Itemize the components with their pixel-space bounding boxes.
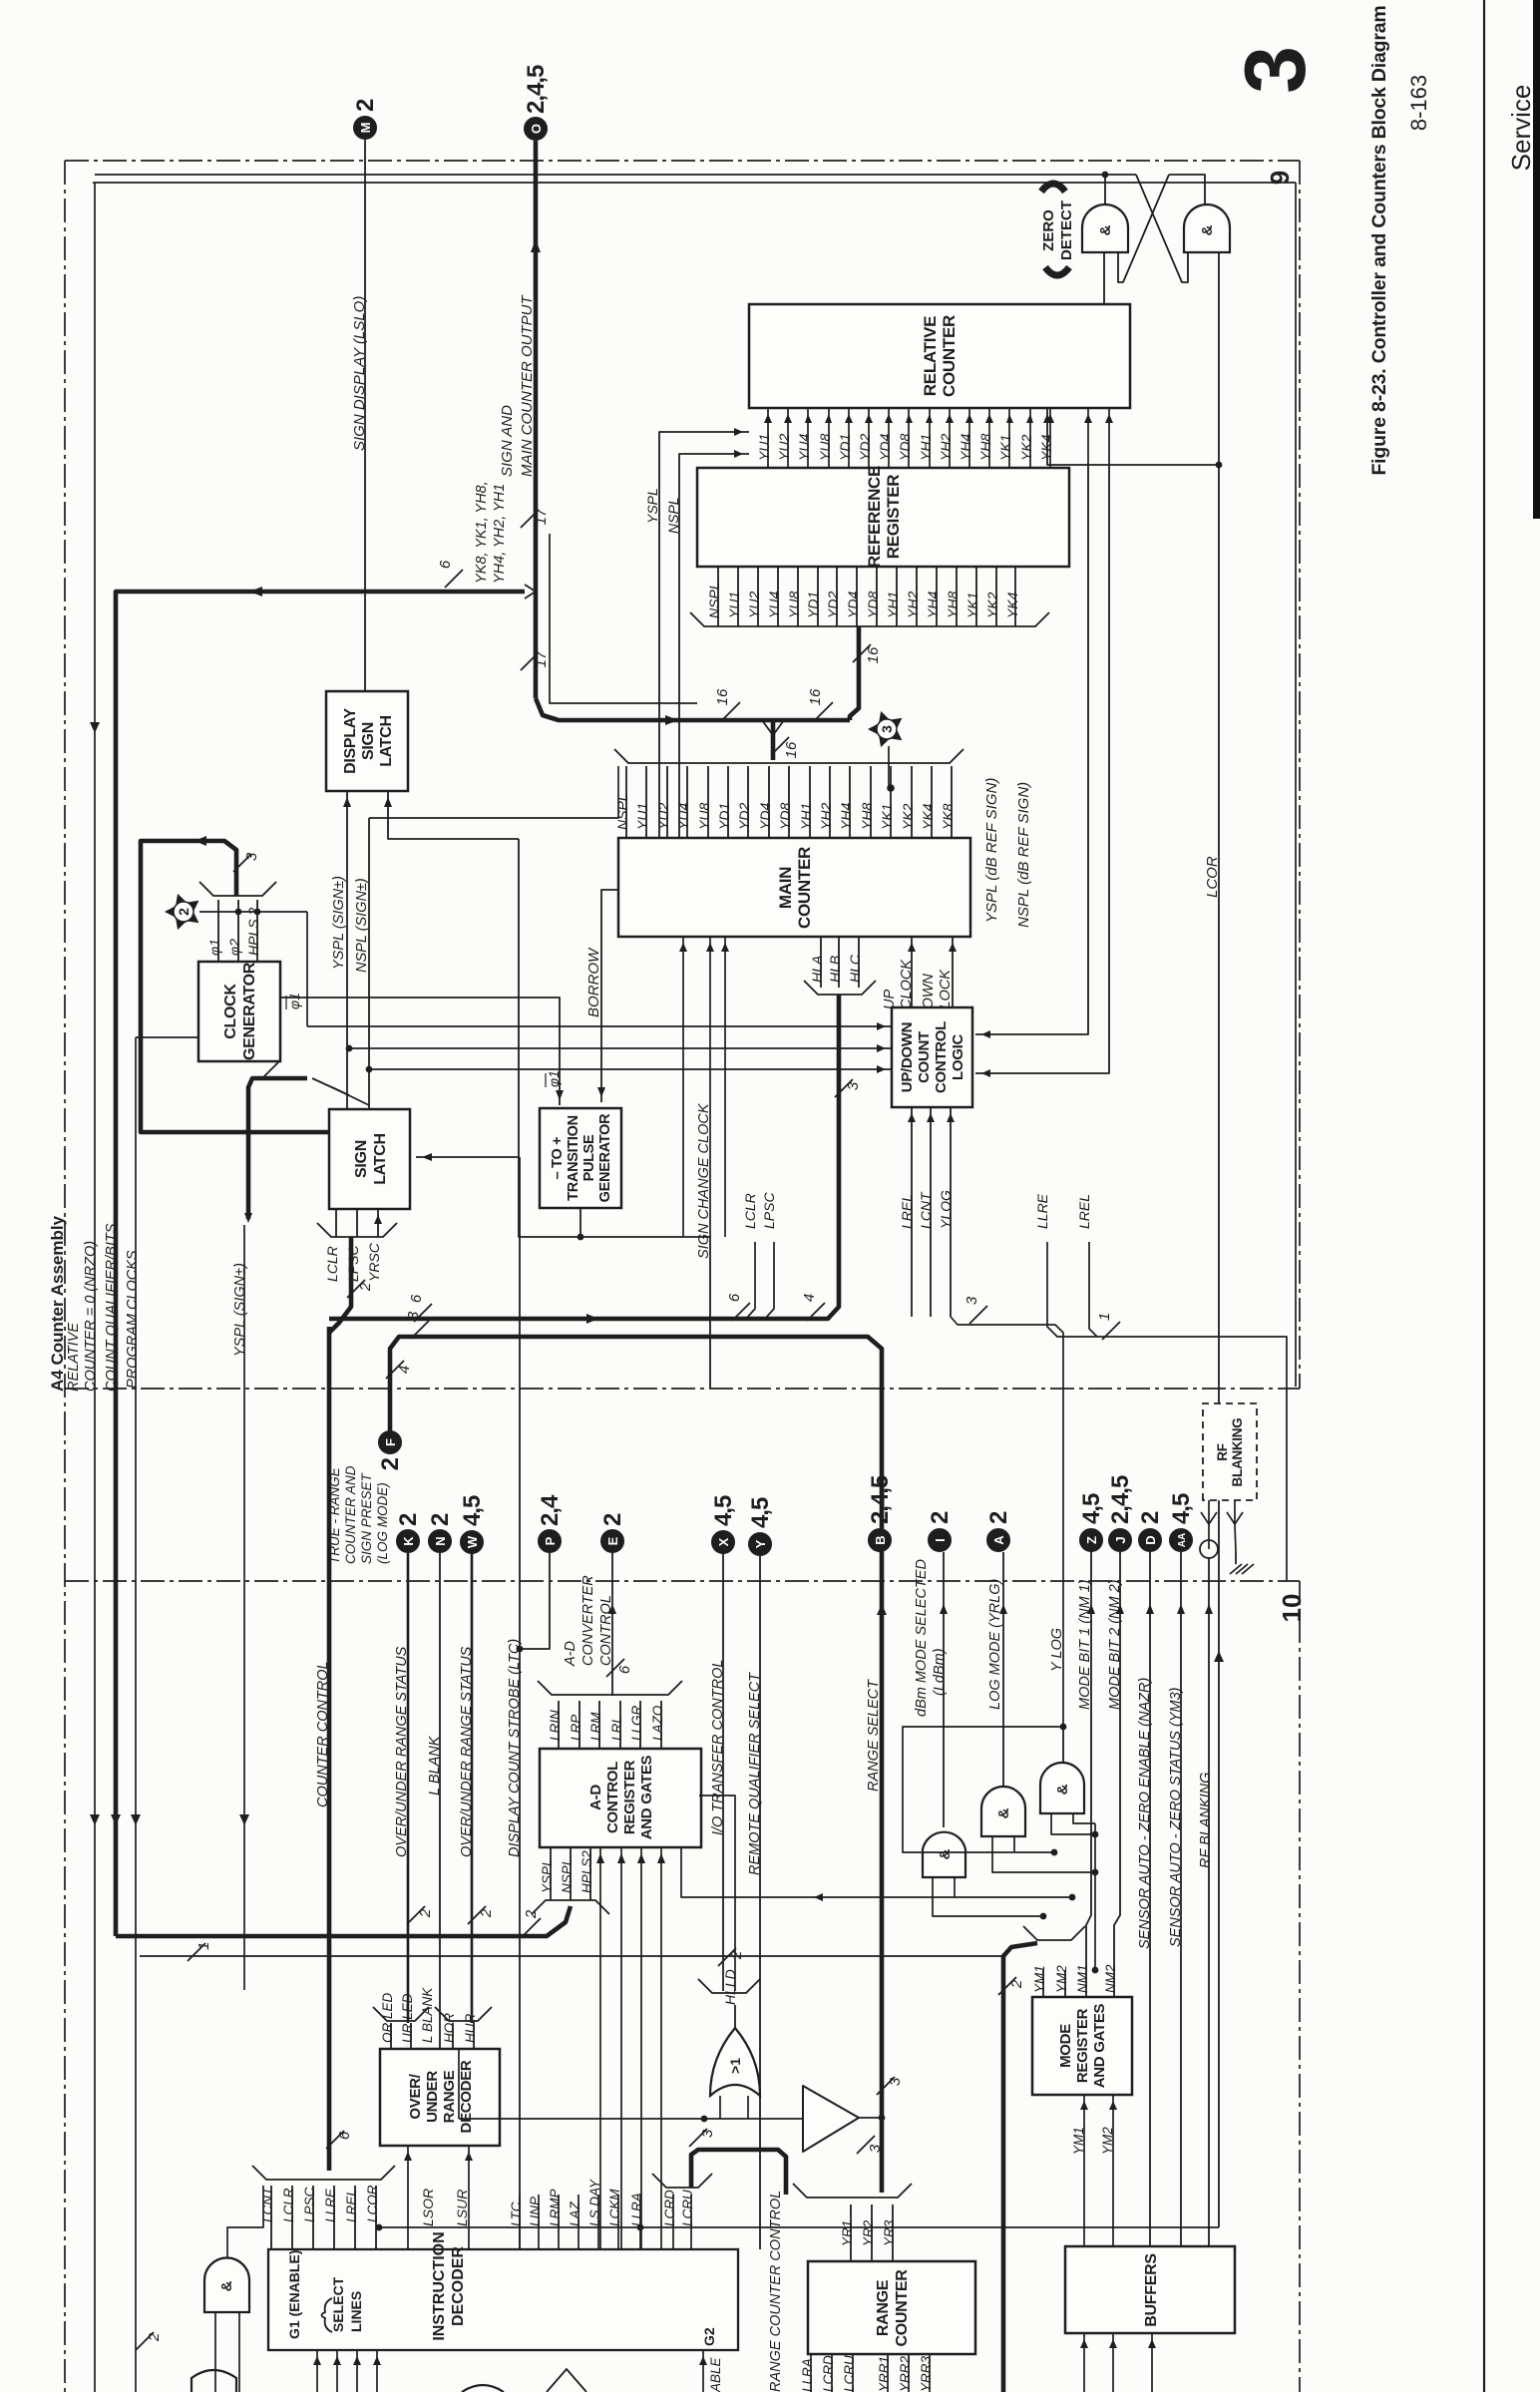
relative counter input arrows YU1-YK4 [767,408,769,468]
svg-text:I: I [933,1538,948,1542]
svg-text:LCRU: LCRU [680,2190,695,2226]
svg-text:A: A [991,1535,1006,1545]
Y-merge of 6-bus into 17-bus [525,585,536,599]
wire SIGN CHANGE CLOCK [580,1237,710,1389]
slash 6 on YK8 bus [445,570,463,588]
LLRE LREL stubs [1047,1242,1287,1581]
svg-text:COUNTER: COUNTER [940,315,959,397]
svg-text:Z: Z [1084,1536,1099,1544]
svg-text:O: O [529,124,544,134]
svg-text:YH1: YH1 [918,434,934,461]
svg-text:RELATIVE: RELATIVE [66,1323,82,1392]
clock generator phi1-bar output [280,998,560,1105]
svg-text:MODE BIT 2 (NM 2): MODE BIT 2 (NM 2) [1107,1579,1123,1710]
svg-text:2: 2 [599,1513,626,1526]
YLOG jog wire [951,1317,1063,1727]
range select thick bus to fan [880,1566,885,2193]
wire PROGRAM CLOCKS [135,1037,137,2392]
svg-text:YU2: YU2 [655,803,671,830]
reference register bottom fan ticks [717,567,719,626]
buffers bottom input arrows [1083,2333,1085,2392]
svg-text:6: 6 [726,1293,743,1302]
wire YM1 YM2 2-bus long run [140,1955,1003,1957]
svg-text:CONTROL: CONTROL [933,1021,950,1093]
connector Z4,5 [1080,1529,1103,1552]
svg-text:YH8: YH8 [859,803,875,830]
svg-text:YH2: YH2 [905,592,921,618]
svg-text:AND GATES: AND GATES [1091,2003,1108,2088]
sign pair taps to logic [346,1045,353,1052]
svg-text:2: 2 [417,1908,434,1918]
svg-text:YD2: YD2 [857,434,873,461]
A-D register bottom fan YSPL NSPL HPLS2 [550,1847,552,1900]
svg-text:YD1: YD1 [837,434,853,461]
svg-text:2,4,5: 2,4,5 [867,1475,894,1524]
wire LOG MODE (YRLG) [1002,1552,1004,1787]
RF blanking pigtails [1208,1500,1210,1549]
svg-text:LCRD: LCRD [821,2355,836,2392]
svg-text:LLRE: LLRE [323,2188,338,2222]
svg-text:LCKM: LCKM [607,2189,622,2226]
svg-text:YH4: YH4 [838,803,854,830]
svg-text:3: 3 [405,1311,422,1320]
zero-detect A output wire to NRZO line [1104,175,1106,204]
svg-text:MAIN COUNTER OUTPUT: MAIN COUNTER OUTPUT [519,294,536,478]
svg-text:Y: Y [753,1539,768,1548]
svg-text:LOG MODE (YRLG): LOG MODE (YRLG) [987,1579,1003,1710]
svg-text:YD4: YD4 [757,803,773,830]
svg-text:F: F [383,1438,398,1446]
clock generator top fan phi1 phi2 HPLS2 [217,900,219,962]
G1 gate input wires [214,2312,216,2392]
svg-text:MAIN: MAIN [776,867,795,909]
svg-text:PULSE: PULSE [581,1134,597,1181]
Y LOG branch wire [903,1727,1063,1852]
svg-text:NSPL: NSPL [614,793,630,830]
svg-text:YM2: YM2 [1054,1965,1069,1993]
connector B2,4,5 [869,1529,892,1552]
svg-text:RANGE: RANGE [875,2279,892,2336]
svg-text:YSPL (dB REF SIGN): YSPL (dB REF SIGN) [983,778,1000,923]
svg-text:2: 2 [1137,1511,1164,1524]
svg-text:(LOG MODE): (LOG MODE) [375,1482,390,1564]
svg-text:X: X [716,1537,731,1546]
svg-text:LREL: LREL [1076,1194,1092,1229]
sheet 9 dash-dot border (A4 Counter Assembly) [65,160,1300,162]
svg-text:TRUE - RANGE: TRUE - RANGE [327,1466,342,1564]
main counter top fan [625,766,627,838]
block RELATIVE COUNTER [749,304,1130,408]
svg-text:YD1: YD1 [716,803,732,830]
svg-text:ZERO: ZERO [1040,209,1057,251]
svg-text:RANGE: RANGE [441,2070,458,2123]
connector E2 [601,1530,624,1553]
svg-text:SIGN CHANGE CLOCK: SIGN CHANGE CLOCK [696,1102,712,1259]
svg-text:NSPL: NSPL [706,582,722,618]
svg-text:RANGE SELECT: RANGE SELECT [866,1679,882,1792]
svg-text:6: 6 [408,1294,425,1303]
decoder fan ticks LTC..LCRU [519,2195,521,2249]
block MAIN COUNTER [618,838,970,937]
svg-text:YSPL: YSPL [540,1858,555,1893]
svg-text:REMOTE QUALIFIER SELECT: REMOTE QUALIFIER SELECT [747,1672,763,1875]
svg-text:LTC: LTC [509,2201,524,2226]
partial AND gate bottom [192,2370,236,2392]
svg-text:A-D: A-D [587,1785,604,1810]
block CLOCK GENERATOR [198,962,280,1061]
svg-text:GENERATOR: GENERATOR [241,962,258,1060]
connector D2 [1139,1529,1162,1552]
svg-text:2: 2 [146,2332,163,2342]
svg-text:LREL: LREL [344,2189,359,2222]
svg-text:HPLS2: HPLS2 [579,1850,594,1893]
connector J2,4,5 [1109,1529,1132,1552]
svg-text:16: 16 [714,688,731,705]
svg-text:YH4: YH4 [925,592,941,618]
decoder bottom inputs LSOR LSUR [407,2146,409,2249]
svg-text:6: 6 [616,1665,633,1674]
svg-text:M: M [358,123,373,134]
svg-text:4: 4 [801,1294,818,1302]
reference register fan bracket [690,612,1049,626]
svg-text:BUFFERS: BUFFERS [1143,2253,1160,2327]
svg-text:GENERATOR: GENERATOR [597,1113,613,1202]
svg-text:COUNTER = 0 (NRZO): COUNTER = 0 (NRZO) [83,1241,99,1392]
wire MODE BIT 2 (NM2) to J [1114,1552,1120,1970]
svg-text:YD8: YD8 [777,803,793,830]
display latch right input from transition loop [388,791,519,839]
svg-text:OVER/UNDER RANGE STATUS: OVER/UNDER RANGE STATUS [459,1646,475,1857]
G2 input arrow [702,2350,704,2392]
svg-text:RF BLANKING: RF BLANKING [1198,1773,1214,1868]
AND gate ylog [1040,1763,1084,1813]
wire LCOR long run [379,2226,1219,2228]
svg-text:LCOR: LCOR [1204,856,1221,898]
connector Y4,5 [749,1533,772,1556]
svg-text:DETECT: DETECT [1058,200,1075,260]
partial gate at bottom edge [462,2385,504,2392]
block RANGE COUNTER [808,2261,975,2354]
block REFERENCE REGISTER [697,468,1069,567]
svg-text:CLOCK: CLOCK [222,984,239,1039]
svg-text:4,5: 4,5 [710,1495,737,1526]
decoder top fan LCNT..LCOR [270,2186,272,2249]
svg-text:1: 1 [195,1942,212,1950]
svg-text:4,5: 4,5 [1078,1493,1105,1524]
svg-text:YLOG: YLOG [938,1190,954,1229]
svg-text:LRM: LRM [588,1712,603,1741]
wire DOWN CLOCK [952,937,954,1007]
AND gate zero-detect B [1184,204,1230,252]
block SIGN LATCH [329,1109,410,1209]
svg-text:LPSC: LPSC [302,2187,317,2222]
block RF BLANKING (dashed) [1203,1403,1257,1500]
svg-text:&: & [1199,224,1216,235]
svg-text:LS DAY: LS DAY [587,2179,602,2226]
svg-text:YK2: YK2 [1018,434,1034,461]
svg-text:LINP: LINP [528,2197,543,2226]
svg-text:YH8: YH8 [945,592,961,618]
svg-text:YD1: YD1 [805,592,821,618]
svg-text:LSOR: LSOR [420,2189,436,2226]
block OVER/UNDER RANGE DECODER [380,2049,500,2146]
A-D register top fan LRIN..LAZO [558,1701,560,1749]
svg-text:NSPL (SIGN±): NSPL (SIGN±) [354,878,370,973]
svg-text:UR LED: UR LED [400,1993,415,2043]
svg-text:2,4,5: 2,4,5 [1107,1475,1134,1524]
svg-text:YRSC: YRSC [366,1242,382,1282]
mode register bottom inputs YM1 YM2 [1083,2095,1085,2246]
svg-text:YSPL (SIGN±): YSPL (SIGN±) [331,876,347,970]
NM1 NM2 feeds to gates [1094,1823,1096,1970]
svg-text:NM1: NM1 [1075,1964,1090,1993]
up/down logic bottom inputs LREL LCNT YLOG [911,1107,913,1317]
6-bus turn to A-D register [116,1906,571,1936]
svg-text:W: W [465,1535,480,1548]
svg-text:&: & [1054,1784,1071,1795]
svg-text:REGISTER: REGISTER [621,1760,638,1834]
svg-text:L BLANK: L BLANK [427,1735,443,1796]
svg-text:YH1: YH1 [798,803,814,830]
main counter fan bracket [614,749,963,763]
wire MODE BIT 1 (NM1) to Z [1086,1552,1091,1970]
svg-text:A-D: A-D [563,1641,578,1667]
block MODE REGISTER AND GATES [1032,1997,1132,2095]
svg-text:BLANKING: BLANKING [1230,1418,1245,1487]
A-D register bottom input arrows from decoder [599,1847,601,2249]
svg-text:17: 17 [533,650,550,667]
svg-text:G1 (ENABLE): G1 (ENABLE) [286,2250,302,2339]
svg-text:YU8: YU8 [786,592,802,618]
svg-text:AND GATES: AND GATES [638,1755,655,1839]
svg-text:ABLE: ABLE [708,2356,723,2392]
svg-text:LRP: LRP [569,1715,583,1741]
gate interconnect wires [933,1877,1043,1916]
sheet 9 inner solid border [93,182,1296,184]
svg-text:COUNTER AND: COUNTER AND [343,1465,358,1564]
svg-text:3: 3 [699,2129,716,2138]
HLA HLB HLC fan [820,937,822,988]
svg-text:B: B [873,1535,888,1544]
star 3 wire to YK1 [888,746,890,786]
svg-text:YK1: YK1 [964,593,980,618]
star 2 wire across clock fan [199,911,307,913]
A-D register right side wires to HLLD bracket [699,1796,735,1991]
wire YSPL (SIGN+/-) long [243,1225,245,1990]
svg-text:YM1: YM1 [1071,2127,1086,2155]
block TRANSITION PULSE GENERATOR [540,1108,621,1208]
svg-text:SELECT: SELECT [330,2276,346,2332]
svg-text:LCRD: LCRD [662,2190,677,2226]
svg-text:3: 3 [1228,46,1324,94]
svg-text:SENSOR AUTO - ZERO STATUS (YM3: SENSOR AUTO - ZERO STATUS (YM3) [1168,1688,1184,1947]
svg-text:LCNT: LCNT [918,1191,934,1229]
scan edge mark right [1533,0,1540,519]
svg-text:HLB: HLB [827,956,843,983]
svg-text:P: P [543,1536,558,1545]
cross-coupling X wires [1136,175,1188,282]
triangle output junction [859,2117,882,2119]
OR gate >=1 [710,2028,760,2096]
svg-text:CONTROL: CONTROL [604,1762,621,1833]
svg-text:LREL: LREL [899,1194,915,1229]
svg-text:2: 2 [478,1908,495,1918]
svg-text:Y LOG: Y LOG [1049,1628,1065,1672]
svg-text:dBm MODE SELECTED: dBm MODE SELECTED [914,1559,930,1717]
svg-text:φ2: φ2 [226,939,242,956]
OR gate output to HLLD [734,2005,736,2028]
svg-text:YU4: YU4 [796,434,812,461]
svg-text:&: & [218,2280,235,2291]
svg-text:INSTRUCTION: INSTRUCTION [431,2231,448,2340]
connector W4,5 [461,1531,484,1554]
svg-text:COUNT QUALIFIER/BITS: COUNT QUALIFIER/BITS [104,1223,120,1392]
svg-text:COUNTER: COUNTER [795,847,814,929]
svg-text:YU8: YU8 [696,803,712,830]
wire I/O transfer control (X) [722,1553,724,1991]
svg-text:6: 6 [336,2131,353,2140]
svg-text:2: 2 [927,1511,954,1524]
svg-text:16: 16 [807,688,824,705]
svg-text:3: 3 [243,852,260,861]
svg-text:COUNTER: COUNTER [894,2269,911,2347]
svg-text:LSUR: LSUR [454,2190,470,2226]
svg-text:YK4: YK4 [1038,434,1054,461]
svg-text:A4 Counter Assembly: A4 Counter Assembly [48,1215,67,1392]
clock 3-bus riser [141,841,329,1132]
svg-text:NSPL: NSPL [560,1858,575,1893]
svg-text:YD4: YD4 [845,592,861,618]
svg-text:YM1: YM1 [1032,1965,1047,1993]
zero-detect B bottom feed from LCOR junction [1218,252,1220,465]
svg-text:YH4, YH2, YH1: YH4, YH2, YH1 [492,484,508,584]
sign latch bottom fan LCLR LPSC YRSC [335,1209,337,1237]
decoder select line inputs [316,2350,318,2392]
YM1 YM2 bracket [1023,1926,1085,1940]
svg-text:LRL: LRL [609,1716,624,1741]
svg-text:LATCH: LATCH [372,1133,389,1185]
wire L BLANK (N) [439,1553,441,2049]
svg-text:HOR: HOR [442,2013,457,2043]
svg-text:LLGR: LLGR [629,1705,644,1741]
svg-text:YU4: YU4 [675,803,691,830]
YSPL/NSPL sign pair tap bundle [248,1078,307,1219]
svg-text:10: 10 [1277,1594,1307,1623]
svg-text:REGISTER: REGISTER [884,475,903,560]
svg-text:LINES: LINES [348,2291,364,2332]
svg-text:YU1: YU1 [756,434,772,461]
svg-text:OVER/: OVER/ [407,2073,424,2119]
wire YSPL to relative counter [659,432,749,866]
svg-text:LCLR: LCLR [281,2188,296,2222]
svg-text:YH4: YH4 [958,434,973,461]
svg-text:3: 3 [879,725,895,733]
AND gate G1 enable [204,2258,249,2313]
OR gate inputs [719,2096,721,2119]
wire RF BLANKING [1208,1558,1210,2246]
buffer triangle [803,2086,859,2152]
range counter top fan YR1 YR2 YR3 [850,2204,852,2261]
wire SENSOR AUTO-ZERO STATUS (YM3) [1180,1552,1182,2246]
svg-text:YU8: YU8 [817,434,833,461]
svg-text:YD4: YD4 [877,434,893,461]
svg-text:YRR3: YRR3 [919,2355,934,2392]
svg-text:LLRA: LLRA [800,2358,815,2392]
connector O 2,4,5 (sign and main counter output) [525,118,548,141]
svg-text:LCLR: LCLR [324,1246,340,1282]
svg-text:RANGE COUNTER CONTROL: RANGE COUNTER CONTROL [768,2191,784,2392]
svg-text:RF: RF [1215,1443,1230,1460]
AND gate log mode [981,1787,1025,1836]
svg-text:2: 2 [377,1457,404,1470]
svg-text:YD2: YD2 [736,803,752,830]
svg-text:YK8: YK8 [940,803,956,830]
wire RELATIVE COUNTER = 0 (NRZO) [94,183,96,2392]
bus to main counter (HLA etc) [329,995,839,1319]
page edge separator line [1483,0,1485,2392]
svg-text:UP/DOWN: UP/DOWN [899,1022,916,1092]
connector I2 [929,1529,952,1552]
svg-text:HUR: HUR [463,2014,478,2043]
svg-text:YK4: YK4 [1004,592,1020,618]
svg-text:φ1: φ1 [206,939,222,956]
decoder top fan OR LED UR LED L BLANK HOR HUR [390,2023,392,2049]
wire NSPL (dB REF SIGN) [975,465,1109,1073]
svg-text:(LdBm): (LdBm) [932,1648,948,1696]
wire Y LOG from gate [1062,1727,1064,1763]
svg-text:CONTROL: CONTROL [598,1595,614,1666]
svg-text:YU4: YU4 [766,592,782,618]
relative counter extra input arrows [1087,408,1089,465]
AND gate zero-detect A [1082,204,1128,252]
range counter bottom ticks [810,2354,812,2392]
wire LTC display count strobe [519,1157,521,2249]
svg-text:MODE BIT 1 (NM 1): MODE BIT 1 (NM 1) [1077,1579,1093,1710]
svg-text:2,4: 2,4 [537,1494,564,1526]
connector M2 (sign display) [354,117,377,140]
block DISPLAY SIGN LATCH [326,691,408,791]
svg-text:4: 4 [396,1366,413,1374]
connector N2 [429,1530,452,1553]
svg-text:CLOCK: CLOCK [899,959,915,1009]
svg-text:YH2: YH2 [938,434,954,461]
svg-text:DECODER: DECODER [450,2246,467,2326]
svg-text:YSPL (SIGN±): YSPL (SIGN±) [232,1263,248,1357]
svg-text:J: J [1113,1536,1128,1543]
RF blanking open circle [1200,1540,1218,1558]
svg-text:4,5: 4,5 [459,1495,486,1526]
svg-text:4,5: 4,5 [747,1497,774,1528]
svg-text:CONVERTER: CONVERTER [580,1575,596,1666]
zero-detect input from relative counter [1103,252,1105,304]
thin corridor wire near 17-bus [550,534,697,703]
connector F2 true-range preset [379,1431,402,1454]
svg-text:NSPL (dB REF SIGN): NSPL (dB REF SIGN) [1015,782,1032,928]
mode register top fan YM1 YM2 NM1 NM2 [1042,1970,1044,1997]
svg-text:2: 2 [427,1513,454,1526]
svg-text:YR2: YR2 [861,2219,876,2246]
svg-text:PROGRAM CLOCKS: PROGRAM CLOCKS [125,1250,141,1389]
svg-text:YD8: YD8 [897,434,913,461]
svg-text:YSPL: YSPL [644,488,660,524]
svg-text:SIGN: SIGN [360,722,377,760]
svg-text:17: 17 [533,508,550,525]
svg-text:LPSC: LPSC [761,1192,777,1229]
svg-text:I/O TRANSFER CONTROL: I/O TRANSFER CONTROL [710,1660,726,1835]
svg-text:BORROW: BORROW [585,947,602,1017]
svg-text:– TO +: – TO + [550,1137,566,1180]
wire COUNTER CONTROL 6-bus [327,1327,332,2171]
